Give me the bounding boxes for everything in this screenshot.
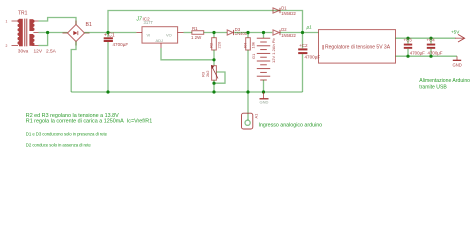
wire regulator +5V output: [396, 37, 456, 39]
junction R4 bus: [246, 90, 249, 93]
svg-text:4700µF: 4700µF: [305, 54, 321, 59]
svg-text:ADJ: ADJ: [156, 38, 164, 43]
wire regulator GND output: [396, 55, 458, 57]
capacitor C2: [298, 33, 320, 93]
svg-text:1N5822: 1N5822: [281, 11, 296, 16]
secondary winding lower: [29, 34, 33, 46]
svg-text:2: 2: [6, 44, 8, 48]
svg-text:R1 regola la corrente di caric: R1 regola la corrente di carica a 1250mA…: [26, 119, 152, 125]
svg-text:12V 1.2Ah Pb: 12V 1.2Ah Pb: [271, 38, 276, 63]
svg-text:2.5A: 2.5A: [46, 48, 57, 54]
capacitor C3: [404, 37, 426, 58]
junction: [46, 31, 49, 34]
svg-text:10k: 10k: [251, 42, 256, 48]
junction node R4: [246, 31, 249, 34]
+5V supply arrow: [451, 30, 465, 43]
diode D1: [273, 5, 297, 16]
svg-text:R2: R2: [209, 42, 214, 48]
wire bridge right to VI: [85, 32, 137, 34]
wire ADJ: [161, 48, 214, 60]
svg-text:1N5822: 1N5822: [281, 33, 296, 38]
capacitor C1: [104, 32, 129, 92]
ground bus wire: [71, 91, 302, 93]
svg-text:+C4: +C4: [427, 38, 436, 43]
svg-text:220: 220: [217, 41, 222, 48]
junction node ADJ: [212, 58, 215, 61]
capacitor C4: [427, 37, 443, 58]
svg-text:2k2: 2k2: [205, 70, 210, 77]
junction C1 bus: [106, 90, 109, 93]
secondary pins: [33, 20, 38, 22]
wire top tap to bridge top: [39, 18, 77, 25]
svg-text:4700µF: 4700µF: [113, 42, 129, 47]
junction R3 bus: [212, 90, 215, 93]
svg-text:R4: R4: [243, 42, 248, 48]
svg-text:GND: GND: [260, 100, 269, 105]
svg-text:4700µF: 4700µF: [428, 51, 443, 56]
wire to analog connector: [247, 92, 249, 115]
ground left (battery): [260, 92, 269, 105]
svg-text:D1: D1: [281, 5, 287, 10]
svg-text:1 2W: 1 2W: [191, 35, 202, 40]
trimmer R3: [201, 60, 226, 92]
svg-text:µ1: µ1: [307, 25, 313, 30]
svg-text:317T: 317T: [144, 20, 154, 25]
svg-text:VO: VO: [166, 33, 172, 38]
svg-text:D1 e D3 conducono solo in pres: D1 e D3 conducono solo in presenza di re…: [26, 131, 108, 136]
junction: [106, 31, 109, 34]
svg-text:tramite USB: tramite USB: [419, 85, 447, 91]
svg-text:Alimentazione Arduino: Alimentazione Arduino: [419, 78, 470, 84]
svg-text:B1: B1: [86, 22, 92, 28]
resistor R1: [191, 26, 204, 40]
svg-text:30va: 30va: [18, 48, 29, 54]
svg-text:D2: D2: [281, 27, 287, 32]
transformer TR1: [6, 11, 57, 55]
junction node battery: [262, 31, 265, 34]
resistor R2: [209, 33, 222, 60]
battery G1: [251, 33, 276, 93]
core: [24, 19, 26, 47]
svg-text:VI: VI: [147, 33, 151, 38]
svg-text:Ingresso analogico arduino: Ingresso analogico arduino: [259, 123, 323, 129]
svg-text:1: 1: [6, 20, 8, 24]
primary winding: [19, 19, 23, 47]
junction node VIN-reg: [301, 31, 304, 34]
wire bridge bottom to bus: [71, 42, 76, 93]
wire VO to R1: [184, 32, 193, 34]
wiper wire: [214, 72, 225, 83]
diode D3: [227, 27, 250, 36]
secondary winding upper: [29, 19, 33, 31]
resistor R4: [243, 33, 256, 93]
wire bottom tap up to mid: [39, 33, 48, 46]
bridge rectifier B1: [63, 21, 92, 46]
wire D3 to battery node: [234, 32, 272, 34]
connector A1 (analog input): [242, 113, 259, 129]
svg-text:4700µF: 4700µF: [410, 51, 425, 56]
svg-text:+C2: +C2: [299, 43, 308, 48]
ground right: [453, 56, 462, 67]
primary pin bottom: [12, 45, 19, 47]
svg-text:D2 conduce solo in assenza di: D2 conduce solo in assenza di rete: [26, 142, 92, 147]
svg-text:A1: A1: [254, 113, 259, 119]
svg-text:+C3: +C3: [404, 38, 413, 43]
wire mid tap to bridge left: [39, 32, 68, 34]
svg-text:G1: G1: [251, 53, 256, 59]
svg-text:GND: GND: [453, 63, 462, 68]
wire D2 to regulator: [280, 32, 318, 34]
junction battery bus: [262, 90, 265, 93]
wire R1 to D3: [204, 32, 227, 34]
regulator module box: [319, 30, 396, 64]
svg-text:Regolatore di tensione 5V 3A: Regolatore di tensione 5V 3A: [325, 44, 391, 50]
junction node out: [212, 31, 215, 34]
node VIN riser: [108, 11, 303, 33]
svg-text:+5V: +5V: [451, 30, 460, 35]
diode D2: [273, 27, 297, 38]
svg-text:TR1: TR1: [18, 11, 28, 17]
svg-text:12V: 12V: [34, 48, 43, 54]
voltage regulator IC2 317T: [136, 17, 184, 49]
primary pin top: [12, 20, 19, 22]
svg-text:J7: J7: [136, 17, 143, 23]
